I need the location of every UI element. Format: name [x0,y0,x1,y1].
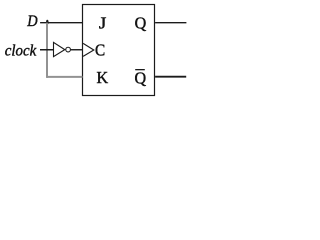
wire junction down to K (vertical, gray) [46,23,48,78]
svg-text:clock: clock [5,42,37,60]
inverter U2 triangle [54,42,65,56]
wire Q output [155,22,186,24]
wire bottom run to K input (gray) [47,76,83,78]
svg-text:Q: Q [135,13,147,32]
inverter U2 bubble [66,47,71,52]
pin Q-bar overline [135,69,145,71]
wire D to J input [40,22,82,24]
svg-text:D: D [26,12,37,30]
wire clock to inverter [40,49,54,51]
svg-text:K: K [97,68,109,87]
JK flip-flop schematic [0,0,189,98]
wire Q-bar output [155,76,186,78]
flip-flop box U1 [83,5,155,96]
svg-text:C: C [95,42,105,60]
svg-text:J: J [99,13,106,32]
wire inverter to C input [71,49,83,51]
svg-text:Q: Q [135,68,147,87]
clock edge-trigger symbol at C [83,43,94,56]
junction dot on D wire [46,20,49,25]
